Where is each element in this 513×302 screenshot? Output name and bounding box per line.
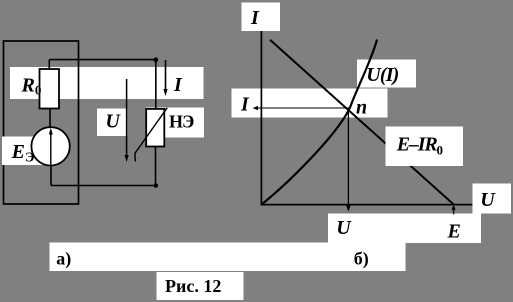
label background: graph I / n band xyxy=(232,89,388,118)
label background: a) b) band xyxy=(50,243,406,272)
wire: source top to R0 xyxy=(49,109,51,128)
svg-text:U(I): U(I) xyxy=(366,64,398,86)
svg-text:Рис. 12: Рис. 12 xyxy=(165,276,221,296)
label background: EE box xyxy=(2,137,44,166)
nonlinear element NE xyxy=(146,109,164,147)
label background: right U box xyxy=(473,184,512,214)
svg-text:E: E xyxy=(447,220,461,242)
svg-text:E–IR0: E–IR0 xyxy=(396,134,443,158)
node: bottom junction dot xyxy=(154,183,159,188)
label background: Ris.12 band xyxy=(157,272,244,300)
svg-text:б): б) xyxy=(354,248,369,269)
resistor R0 xyxy=(40,69,60,109)
svg-text:I: I xyxy=(173,74,183,96)
label background: E-IR0 box xyxy=(386,127,464,167)
svg-text:I: I xyxy=(240,94,250,116)
wire: top rail xyxy=(49,59,156,61)
current arrow I (circuit) xyxy=(165,60,167,90)
voltage arrow U xyxy=(126,79,128,156)
label background: U(I) box xyxy=(357,60,416,88)
svg-text:I: I xyxy=(250,7,260,29)
label background: R0 / I band xyxy=(10,67,204,99)
wire: bottom rail xyxy=(51,185,156,187)
label background: NE band xyxy=(146,108,204,138)
wire: R0 top to top rail xyxy=(48,60,50,69)
source block outer rectangle xyxy=(4,41,79,204)
wire: junction down to NE xyxy=(155,60,157,109)
I axis xyxy=(260,31,262,205)
curve U(I) xyxy=(262,40,377,205)
svg-text:а): а) xyxy=(56,248,71,269)
wire: NE bottom to bottom junction xyxy=(155,147,157,186)
svg-text:U: U xyxy=(336,217,352,239)
marker line I to n xyxy=(257,107,349,109)
wire: source bottom xyxy=(50,166,52,186)
svg-text:U: U xyxy=(480,189,496,211)
load line E-IR0 xyxy=(270,40,454,205)
svg-text:n: n xyxy=(356,96,367,118)
marker E on U axis xyxy=(453,209,455,214)
source EE circle xyxy=(31,127,69,165)
svg-text:НЭ: НЭ xyxy=(169,112,194,132)
NE diagonal tail xyxy=(134,153,136,162)
node: top junction dot xyxy=(153,57,158,62)
marker line n to U axis xyxy=(347,108,349,206)
svg-text:U: U xyxy=(105,110,121,132)
NE diagonal xyxy=(135,108,167,154)
U axis xyxy=(261,204,473,206)
label background: top I box xyxy=(242,3,281,32)
label background: U box xyxy=(97,109,128,137)
source EMF arrow xyxy=(50,134,52,165)
label background: U / E band xyxy=(328,214,481,244)
